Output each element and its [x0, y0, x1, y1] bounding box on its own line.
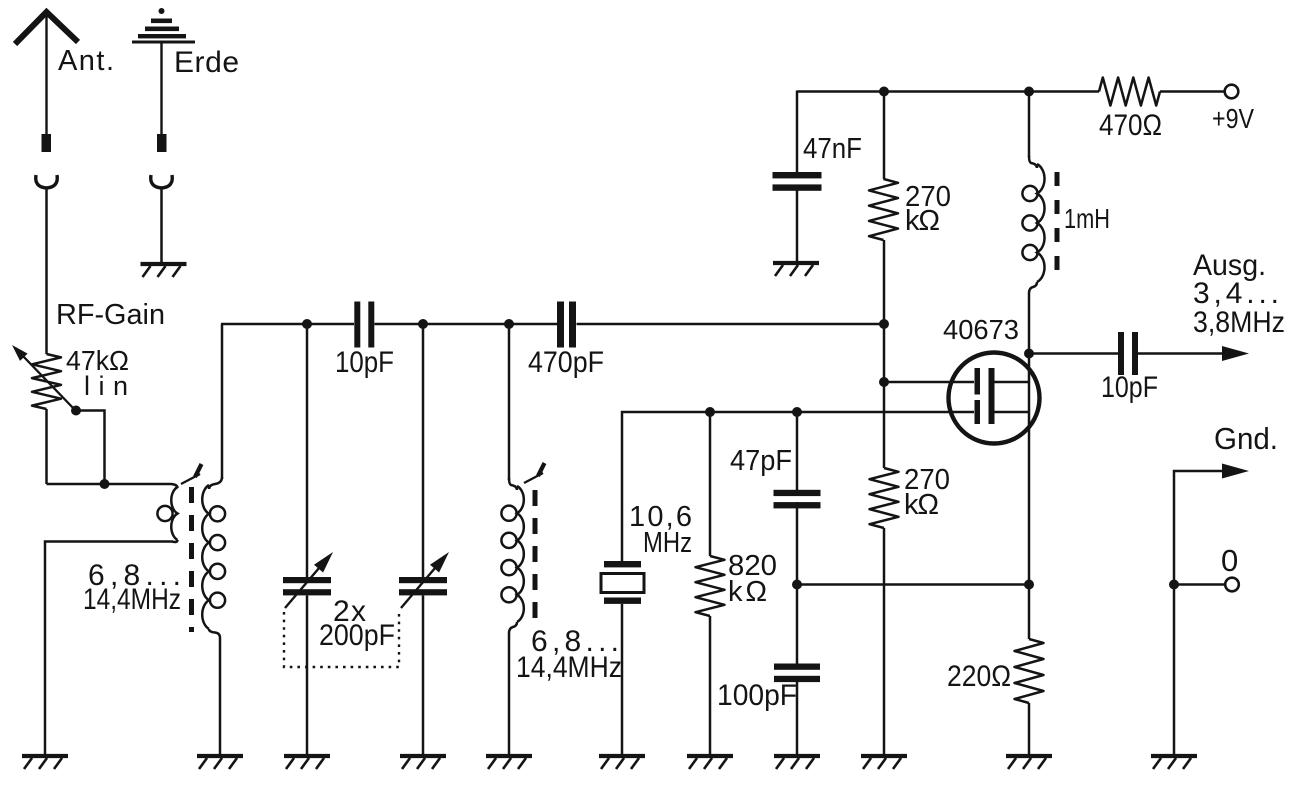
connector plug (Erde) — [157, 134, 167, 152]
connector socket (Erde) — [151, 175, 173, 188]
label Ant. — [58, 45, 114, 77]
label 2x — [333, 595, 366, 628]
ground (L2) — [486, 756, 532, 769]
wire rail to 270k upper — [883, 92, 886, 180]
node gate1 at 820k — [705, 407, 715, 417]
svg-text:MHz: MHz — [643, 527, 692, 559]
C-var2 adjust arrow — [401, 552, 449, 608]
ground (C-var2) — [400, 756, 446, 769]
svg-text:3,8MHz: 3,8MHz — [1193, 306, 1285, 339]
label MHz (crystal) — [643, 527, 692, 559]
ground (Gnd line) — [1151, 756, 1197, 769]
inductor L2 core — [533, 490, 538, 620]
inductor L2 winding — [501, 478, 523, 754]
wire gate1 net — [622, 412, 974, 561]
wire 820k bottom to ground — [709, 616, 712, 754]
svg-text:14,4MHz: 14,4MHz — [83, 583, 181, 616]
node drain — [1024, 349, 1034, 359]
label 270 (lower) — [904, 464, 950, 496]
svg-text:kΩ: kΩ — [905, 205, 940, 237]
T1 adjustable core mark — [181, 464, 202, 484]
variable capacitor C-var1 200pF plates — [283, 577, 331, 595]
wire 100pF to ground — [796, 676, 799, 754]
resistor 270k upper body — [869, 179, 898, 240]
wire rail right segment to gate2 node — [577, 323, 885, 326]
wire rail left segment — [221, 323, 354, 326]
svg-text:0: 0 — [1221, 543, 1238, 578]
wire output — [1138, 352, 1226, 355]
ground (270k lower) — [861, 756, 907, 769]
wire rail to 1mH — [1028, 92, 1031, 158]
capacitor 100pF plates — [774, 664, 820, 683]
inductor 1mH winding — [1022, 156, 1044, 354]
svg-text:470Ω: 470Ω — [1099, 109, 1162, 142]
chassis ground (Erde) — [141, 264, 187, 277]
wire gate2 node down — [883, 324, 886, 382]
wire wiper to bottom node — [76, 411, 105, 485]
inductor 1mH core — [1055, 172, 1060, 274]
wire drain to output cap — [1029, 352, 1118, 355]
resistor 820k body — [696, 556, 725, 616]
svg-text:10pF: 10pF — [335, 346, 394, 379]
wire 47nF to ground — [796, 185, 799, 263]
label Ausg. — [1193, 249, 1266, 282]
wire rail to C-var2 — [422, 324, 425, 577]
wire source net — [797, 583, 1029, 586]
node rail at 270k — [879, 87, 889, 97]
label Erde — [174, 46, 239, 79]
label 470pF — [528, 346, 604, 379]
resistor 270k lower body — [870, 468, 899, 528]
label L2 6,8... — [531, 625, 619, 658]
svg-text:220Ω: 220Ω — [947, 660, 1011, 693]
MOSFET gate electrodes bar — [975, 368, 981, 424]
wire crystal to ground — [621, 604, 624, 754]
label kOhm (820k) — [728, 576, 767, 608]
label kOhm (upper) — [905, 205, 940, 237]
svg-text:Gnd.: Gnd. — [1214, 421, 1278, 456]
capacitor 10pF output plates — [1118, 332, 1138, 375]
connector socket (antenna) — [36, 175, 58, 188]
wire 270k lower to ground — [883, 528, 886, 754]
potentiometer wiper arrow — [12, 345, 76, 411]
svg-text:Ant.: Ant. — [58, 45, 114, 77]
label 47pF — [730, 445, 792, 477]
C-var1 adjust arrow — [285, 552, 333, 608]
potentiometer R1 47k lin body — [32, 354, 61, 409]
node wiper junction — [71, 406, 81, 416]
wire pot bottom — [45, 409, 48, 484]
ground (820k) — [687, 756, 733, 769]
wire T1 secondary to top rail — [221, 324, 224, 479]
svg-text:47pF: 47pF — [730, 445, 792, 477]
wire +9V rail — [797, 90, 1099, 93]
wire Erde to chassis ground — [160, 188, 163, 263]
ground (crystal) — [599, 756, 645, 769]
variable capacitor C-var2 200pF plates — [399, 577, 447, 595]
ground (C-var1) — [284, 756, 330, 769]
output arrow — [1222, 346, 1249, 361]
wire 47pF to source node — [796, 502, 799, 585]
node gate2 bias — [879, 319, 889, 329]
svg-text:+9V: +9V — [1212, 103, 1254, 134]
svg-text:100pF: 100pF — [717, 679, 797, 712]
label T1 6,8... — [88, 559, 181, 592]
svg-text:kΩ: kΩ — [728, 576, 767, 608]
label 47kOhm — [66, 345, 129, 376]
wire drain vertical — [1028, 354, 1031, 585]
terminal +9V — [1225, 85, 1239, 99]
node gate1 at 47pF — [792, 407, 802, 417]
ground (T1 secondary) — [197, 756, 243, 769]
node 0-terminal — [1169, 580, 1179, 590]
crystal Q1 10,6MHz — [601, 561, 644, 604]
capacitor 47nF plates — [773, 172, 822, 191]
wire gate1 to 47pF — [796, 412, 799, 490]
node source net right — [1024, 580, 1034, 590]
svg-text:1mH: 1mH — [1064, 203, 1110, 234]
svg-text:14,4MHz: 14,4MHz — [516, 651, 622, 684]
label 10pF output — [1101, 371, 1158, 404]
label 200pF — [319, 619, 395, 652]
node pot bottom junction — [100, 479, 110, 489]
svg-text:47nF: 47nF — [803, 133, 862, 165]
label 1mH — [1064, 203, 1110, 234]
label L2 14,4MHz — [516, 651, 622, 684]
resistor 220R body — [1015, 639, 1044, 703]
Gnd arrow — [1222, 464, 1249, 479]
label 0 — [1221, 543, 1238, 578]
svg-text:kΩ: kΩ — [904, 489, 939, 521]
wire T1 primary bottom to ground — [45, 540, 178, 754]
terminal 0 — [1225, 578, 1239, 592]
wire rail to C-var1 — [306, 324, 309, 577]
wire source to 220R — [1028, 585, 1031, 640]
chassis ground (47nF) — [773, 263, 819, 276]
node gate2 — [879, 377, 889, 387]
node rail at C-var1 — [302, 319, 312, 329]
label Gnd. — [1214, 421, 1278, 456]
wire C-var2 to ground — [422, 596, 425, 755]
earth electrode symbol (Erde) — [132, 8, 195, 134]
label 40673 — [943, 314, 1019, 345]
capacitor 470pF (coupling) plates — [557, 302, 576, 348]
svg-text:200pF: 200pF — [319, 619, 395, 652]
capacitor 10pF (coupling) plates — [354, 302, 374, 348]
wire 270k to gate2 node — [883, 240, 886, 324]
ground (220R) — [1006, 756, 1052, 769]
capacitor 47pF plates — [774, 490, 821, 509]
svg-text:40673: 40673 — [943, 314, 1019, 345]
wire 470R to +9V terminal — [1160, 90, 1225, 93]
node rail at C-var2 — [418, 319, 428, 329]
wire gate2 to MOSFET — [884, 381, 974, 384]
label RF-Gain — [56, 299, 165, 331]
wire to 0 terminal — [1174, 583, 1225, 586]
wire pot to T1 primary — [47, 484, 178, 488]
label kOhm (lower) — [904, 489, 939, 521]
svg-text:RF-Gain: RF-Gain — [56, 299, 165, 331]
label 3,4... — [1193, 277, 1279, 310]
wire rail corner to 47nF — [796, 91, 799, 173]
label 270 (upper) — [905, 181, 951, 213]
MOSFET 40673 body circle — [949, 353, 1040, 444]
label +9V — [1212, 103, 1254, 134]
label 3,8MHz — [1193, 306, 1285, 339]
wire 820k top — [709, 412, 712, 556]
node rail at 1mH — [1024, 87, 1034, 97]
resistor 470R body — [1099, 78, 1160, 106]
MOSFET drain stub — [995, 381, 1030, 384]
transformer T1 secondary winding — [202, 477, 225, 754]
label lin — [84, 371, 128, 401]
label 47nF — [803, 133, 862, 165]
wire C-var1 to ground — [306, 596, 309, 755]
wire Gnd arrow line — [1174, 471, 1226, 754]
label T1 14,4MHz — [83, 583, 181, 616]
label 100pF — [717, 679, 797, 712]
L2 adjustable core mark — [524, 463, 545, 483]
label 820 — [728, 550, 777, 582]
ground (T1 primary) — [22, 756, 68, 769]
transformer T1 core — [189, 487, 194, 632]
ganged link (dotted) — [284, 612, 399, 667]
ground (100pF) — [774, 756, 820, 769]
connector plug (antenna) — [42, 134, 52, 152]
label 220Ohm — [947, 660, 1011, 693]
wire 220R to ground — [1028, 703, 1031, 754]
svg-text:470pF: 470pF — [528, 346, 604, 379]
antenna symbol ANT — [15, 12, 78, 134]
node rail at L2 — [504, 319, 514, 329]
node source-net left — [792, 580, 802, 590]
label 10pF — [335, 346, 394, 379]
svg-text:10pF: 10pF — [1101, 371, 1158, 404]
wire rail mid segment — [375, 323, 558, 326]
wire rail to L2 — [508, 324, 511, 480]
svg-text:Erde: Erde — [174, 46, 239, 79]
wire antenna to RF-Gain pot — [45, 188, 48, 354]
label 10,6 — [629, 501, 692, 533]
label 470Ohm — [1099, 109, 1162, 142]
wire gate2 to 270k lower — [883, 382, 886, 468]
wire source node to 100pF — [796, 585, 799, 665]
MOSFET channel bar — [989, 368, 995, 424]
MOSFET source stub — [995, 411, 1030, 414]
transformer T1 primary winding — [157, 487, 177, 540]
